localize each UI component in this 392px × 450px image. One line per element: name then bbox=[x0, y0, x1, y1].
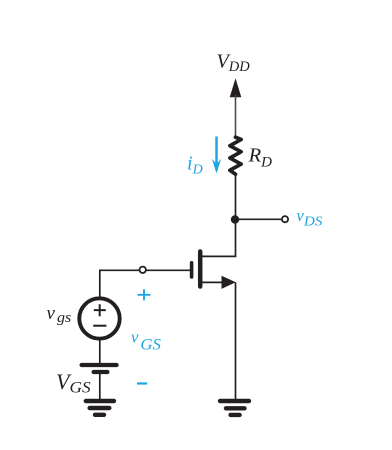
resistor RD bbox=[230, 137, 241, 174]
mosfet source arrowhead bbox=[222, 276, 236, 289]
terminal gate open circle bbox=[140, 267, 146, 273]
svg-text:VDD: VDD bbox=[217, 50, 251, 75]
wire vgs to battery bbox=[99, 339, 101, 364]
ground left bbox=[86, 401, 114, 415]
svg-text:VGS: VGS bbox=[56, 369, 91, 396]
node drain junction bbox=[231, 215, 239, 223]
cyan plus vGS bbox=[138, 289, 151, 300]
mosfet source wire bbox=[202, 281, 224, 283]
battery VGS long plate bbox=[82, 363, 117, 367]
terminal vDS open circle bbox=[282, 216, 288, 222]
svg-text:vDS: vDS bbox=[297, 206, 323, 229]
gate wire left segment bbox=[100, 269, 140, 271]
wire resistor to drain node bbox=[235, 176, 237, 220]
wire drain bbox=[202, 220, 236, 257]
wire source to ground bbox=[235, 282, 237, 399]
gate wire right segment bbox=[146, 269, 190, 271]
plus inside source bbox=[94, 304, 106, 316]
wire node to vDS terminal bbox=[235, 218, 281, 220]
wire gate corner down to source vgs bbox=[99, 270, 101, 298]
iD current arrow bbox=[215, 137, 218, 171]
mosfet Q channel bar bbox=[198, 252, 203, 287]
mosfet Q gate bar bbox=[190, 263, 194, 277]
ground right bbox=[220, 401, 249, 415]
svg-text:RD: RD bbox=[248, 145, 273, 171]
svg-text:vgs: vgs bbox=[47, 303, 72, 326]
wire battery to ground bbox=[99, 372, 101, 400]
svg-text:vGS: vGS bbox=[131, 327, 161, 353]
cyan minus vGS bbox=[137, 382, 147, 384]
battery VGS short plate bbox=[94, 370, 108, 374]
source vgs circle bbox=[79, 298, 119, 338]
minus inside source bbox=[93, 325, 106, 327]
svg-text:iD: iD bbox=[187, 152, 203, 177]
wire VDD to resistor bbox=[235, 95, 237, 136]
VDD supply arrow bbox=[230, 78, 242, 97]
